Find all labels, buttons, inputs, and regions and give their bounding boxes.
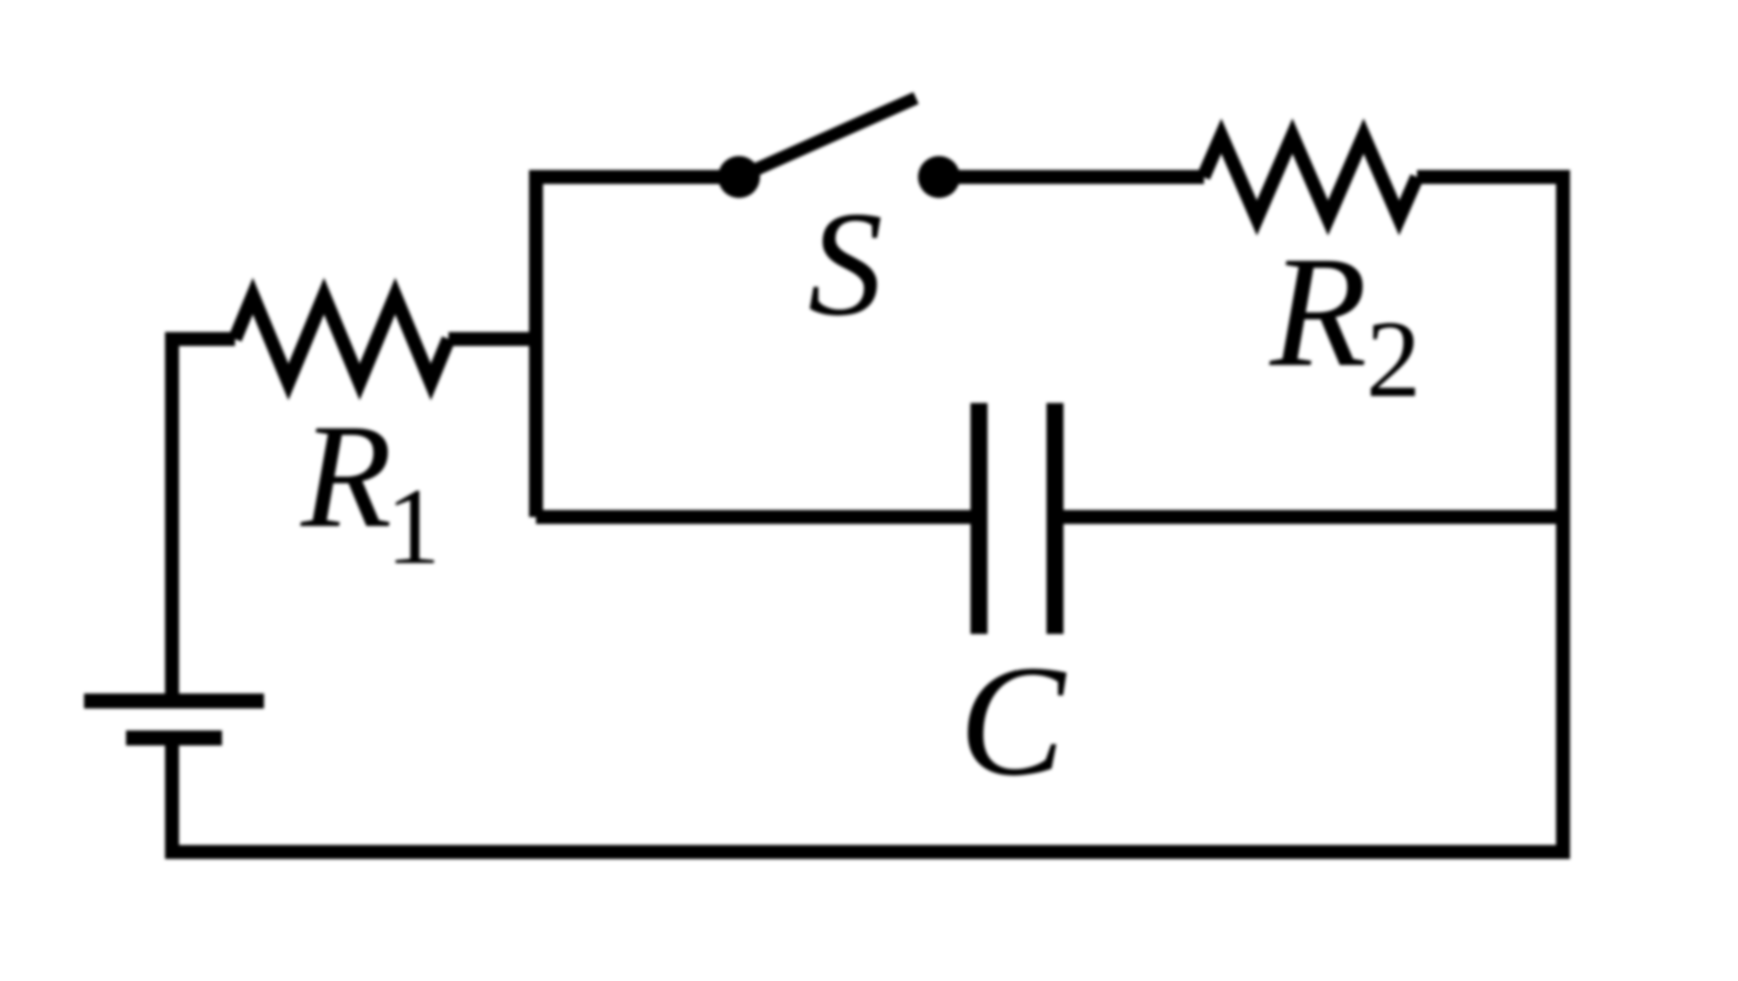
wire switch right dot to R2	[939, 170, 1204, 184]
resistor R1	[235, 296, 449, 382]
svg-text:R: R	[1269, 224, 1367, 400]
wire left upper vertical: R1 wire down to battery	[165, 332, 179, 701]
wire right vertical	[1556, 170, 1570, 859]
wire left junction vertical	[529, 177, 543, 517]
switch S blade	[739, 98, 916, 177]
battery short plate	[126, 731, 222, 746]
capacitor C right plate	[1047, 403, 1064, 634]
wire bottom horizontal	[165, 845, 1570, 859]
switch S left contact dot	[718, 156, 760, 198]
svg-text:2: 2	[1366, 298, 1421, 420]
wire left lower vertical: battery to bottom wire	[165, 738, 179, 859]
wire R2 to top-right corner	[1417, 170, 1570, 184]
svg-text:S: S	[808, 181, 883, 347]
wire middle horizontal right: capacitor to right vertical	[1063, 510, 1563, 524]
wire left to R1	[165, 332, 235, 346]
svg-text:C: C	[959, 633, 1067, 809]
battery long plate	[84, 694, 264, 709]
wire top horizontal: junction to switch left dot	[536, 177, 739, 184]
resistor R2	[1203, 136, 1417, 218]
switch S right contact dot	[918, 156, 960, 198]
svg-text:R: R	[300, 394, 392, 559]
svg-text:1: 1	[386, 466, 441, 587]
capacitor C left plate	[971, 403, 988, 634]
wire middle horizontal left: junction to capacitor	[536, 510, 971, 524]
wire R1 to junction	[449, 332, 544, 346]
